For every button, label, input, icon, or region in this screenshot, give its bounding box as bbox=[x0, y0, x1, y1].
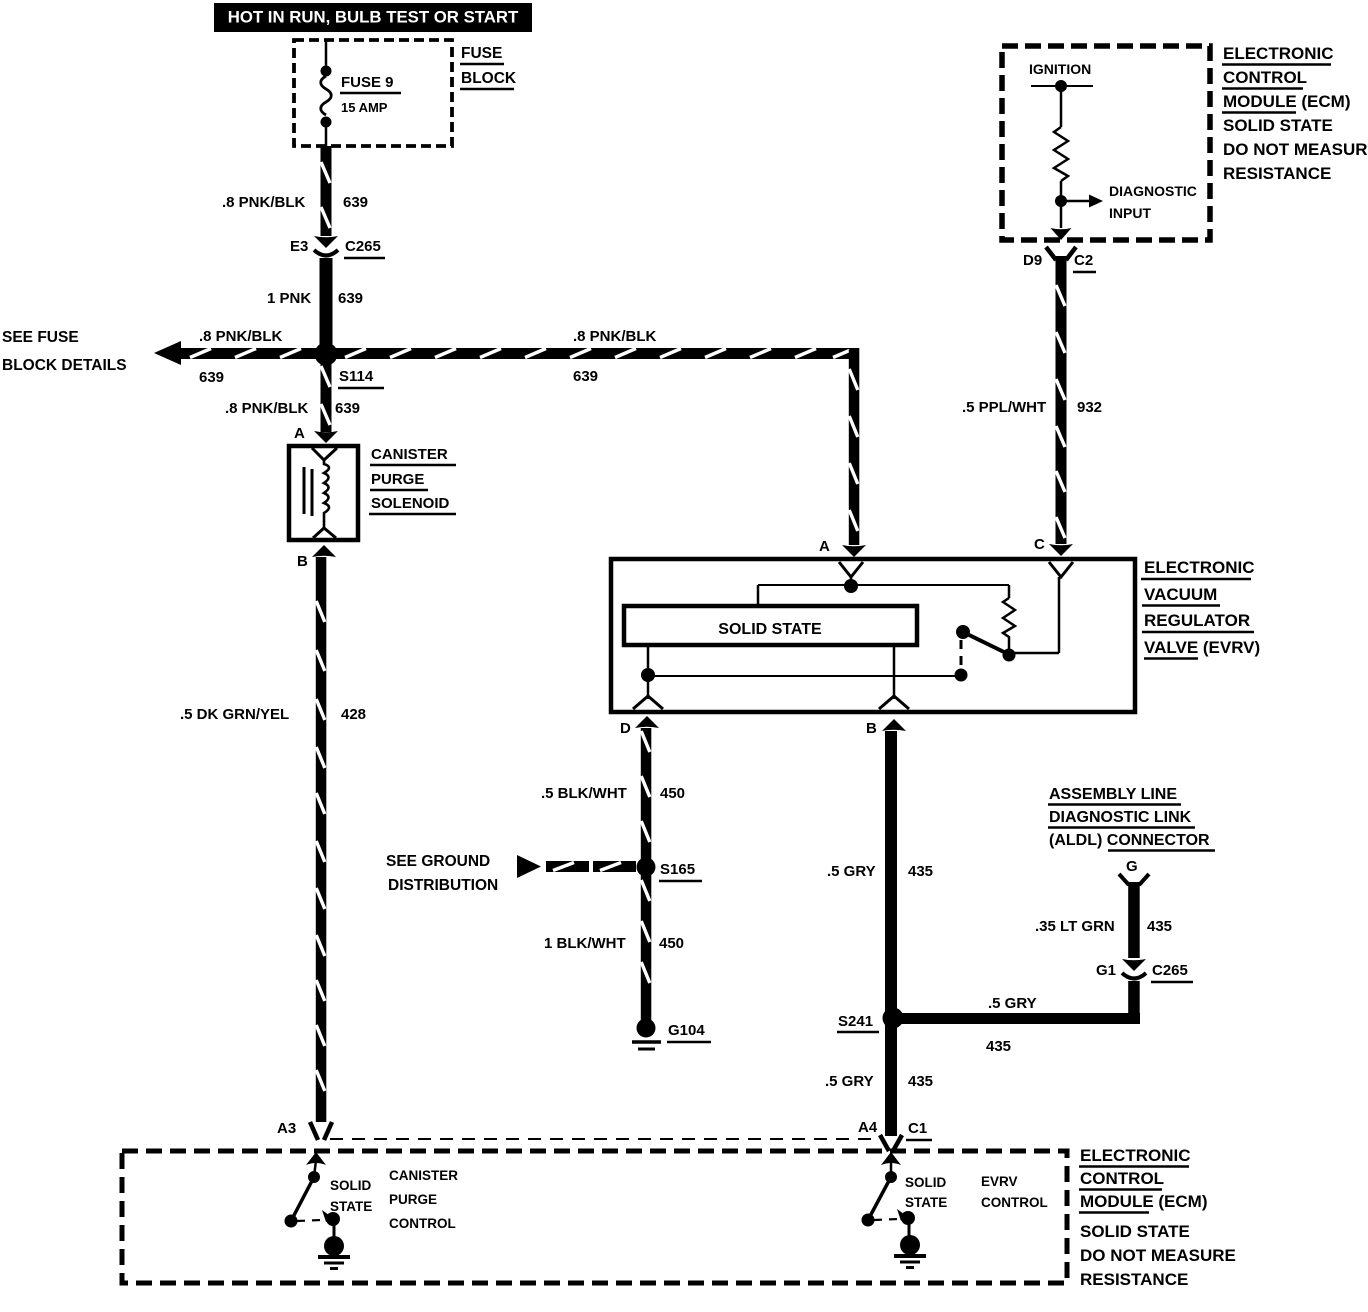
svg-text:SEE FUSE: SEE FUSE bbox=[2, 329, 79, 346]
wire .5 DK GRN/YEL 428 solenoid to ECM A3 bbox=[316, 557, 327, 1122]
label .5 GRY 435 below S241 bbox=[825, 1073, 933, 1090]
node + diagnostic input arrow bbox=[1055, 181, 1103, 228]
label EVRV CONTROL bbox=[981, 1174, 1048, 1210]
svg-text:435: 435 bbox=[908, 863, 933, 880]
canister purge solenoid bbox=[289, 446, 358, 540]
svg-text:G1: G1 bbox=[1096, 962, 1116, 979]
dashed striped link to S165 bbox=[546, 861, 636, 872]
svg-text:DIAGNOSTIC LINK: DIAGNOSTIC LINK bbox=[1049, 809, 1192, 826]
svg-text:639: 639 bbox=[338, 290, 363, 307]
EVRV internal wire switch to C bbox=[1009, 577, 1059, 653]
svg-text:SOLID: SOLID bbox=[330, 1178, 372, 1193]
label ASSEMBLY LINE DIAGNOSTIC LINK (ALDL) CONNECTOR bbox=[1048, 786, 1215, 851]
wire .5 GRY to corner bbox=[1128, 981, 1140, 1019]
svg-text:450: 450 bbox=[659, 935, 684, 952]
ground (EVRV driver) bbox=[894, 1235, 926, 1268]
svg-text:ASSEMBLY LINE: ASSEMBLY LINE bbox=[1049, 786, 1177, 803]
wire .5 GRY 435 B to S241 to ECM A4 bbox=[885, 731, 897, 1136]
terminal A arrow into EVRV bbox=[819, 538, 866, 557]
svg-text:SOLID: SOLID bbox=[905, 1175, 947, 1190]
svg-text:A3: A3 bbox=[277, 1120, 296, 1137]
terminal C arrow into EVRV bbox=[1034, 536, 1073, 556]
resistor (ignition pull-up) bbox=[1054, 127, 1068, 181]
EVRV internal: node below A bbox=[844, 577, 858, 593]
svg-text:A4: A4 bbox=[858, 1119, 878, 1136]
svg-text:VALVE (EVRV): VALVE (EVRV) bbox=[1144, 638, 1260, 657]
EVRV terminal B notch bbox=[879, 696, 909, 709]
fuse F9 symbol bbox=[321, 40, 332, 146]
ECM (bottom) dashed box bbox=[122, 1151, 1067, 1283]
connector C265 terminal E3 (male arrow into female cup) bbox=[314, 236, 338, 256]
svg-text:G: G bbox=[1126, 858, 1138, 875]
EVRV terminal D notch bbox=[633, 696, 663, 709]
svg-text:932: 932 bbox=[1077, 399, 1102, 416]
svg-text:639: 639 bbox=[199, 369, 224, 386]
label ECM top right bbox=[1222, 44, 1368, 183]
svg-text:FUSE: FUSE bbox=[461, 45, 502, 62]
label SOLID STATE (left) bbox=[330, 1178, 372, 1214]
EVRV internal wire A-node to solid state and resistor bbox=[758, 585, 1009, 606]
label .8 PNK/BLK 639 right segment bbox=[573, 328, 657, 385]
svg-text:S241: S241 bbox=[838, 1013, 873, 1030]
svg-text:BLOCK: BLOCK bbox=[461, 70, 517, 87]
connector terminal A3 (into ECM) bbox=[310, 1122, 332, 1140]
svg-text:639: 639 bbox=[343, 194, 368, 211]
svg-text:.35 LT GRN: .35 LT GRN bbox=[1035, 918, 1115, 935]
label CANISTER PURGE SOLENOID bbox=[369, 446, 456, 514]
svg-text:CANISTER: CANISTER bbox=[371, 446, 448, 463]
svg-text:C265: C265 bbox=[345, 238, 381, 255]
svg-text:.5 PPL/WHT: .5 PPL/WHT bbox=[962, 399, 1046, 416]
label FUSE BLOCK bbox=[460, 45, 517, 89]
svg-text:D: D bbox=[620, 720, 631, 737]
svg-text:A: A bbox=[294, 425, 305, 442]
svg-text:ELECTRONIC: ELECTRONIC bbox=[1223, 44, 1334, 63]
svg-text:DO NOT MEASURE: DO NOT MEASURE bbox=[1080, 1246, 1236, 1265]
terminal D arrow up into EVRV bbox=[620, 716, 659, 737]
arrow from ground distribution bbox=[517, 855, 541, 878]
arrow to fuse block details (left) bbox=[154, 341, 181, 365]
svg-text:EVRV: EVRV bbox=[981, 1174, 1018, 1189]
label SOLID STATE (right) bbox=[905, 1175, 947, 1210]
label .35 LT GRN 435 bbox=[1035, 918, 1172, 935]
svg-text:ELECTRONIC: ELECTRONIC bbox=[1080, 1146, 1191, 1165]
dashed connector line C1 between A3 and A4 bbox=[330, 1138, 878, 1140]
svg-text:.5 GRY: .5 GRY bbox=[827, 863, 876, 880]
label 1 BLK/WHT 450 bbox=[544, 935, 684, 952]
label E3 / C265 bbox=[290, 238, 385, 258]
ground G104 bbox=[632, 1019, 711, 1050]
label .5 PPL/WHT 932 bbox=[962, 399, 1102, 416]
terminal B arrow up into solenoid bbox=[297, 545, 336, 570]
svg-text:C: C bbox=[1034, 536, 1045, 553]
svg-text:1 BLK/WHT: 1 BLK/WHT bbox=[544, 935, 626, 952]
svg-text:STATE: STATE bbox=[905, 1195, 947, 1210]
switch dashed actuator link bbox=[960, 640, 963, 670]
svg-text:CONTROL: CONTROL bbox=[389, 1216, 456, 1231]
svg-text:BLOCK DETAILS: BLOCK DETAILS bbox=[2, 357, 127, 374]
label .5 GRY 435 horizontal bbox=[986, 995, 1037, 1055]
svg-text:C265: C265 bbox=[1152, 962, 1188, 979]
svg-text:PURGE: PURGE bbox=[371, 471, 424, 488]
wire .35 LT GRN 435 G to C265 bbox=[1128, 882, 1140, 958]
svg-text:CONTROL: CONTROL bbox=[981, 1195, 1048, 1210]
wire .8 PNK/BLK 639 down to EVRV A bbox=[849, 348, 860, 545]
splice S165 bbox=[637, 858, 703, 882]
wire .5 PPL/WHT 932 D9 to EVRV C bbox=[1056, 256, 1067, 544]
terminal A arrow into solenoid bbox=[294, 425, 338, 443]
wire .5 GRY 435 S241 to ALDL bbox=[891, 1013, 1140, 1024]
svg-text:.5 GRY: .5 GRY bbox=[825, 1073, 874, 1090]
svg-text:SOLID STATE: SOLID STATE bbox=[1223, 116, 1333, 135]
label DIAGNOSTIC INPUT bbox=[1109, 183, 1197, 221]
svg-text:HOT IN RUN, BULB TEST OR START: HOT IN RUN, BULB TEST OR START bbox=[228, 8, 519, 27]
svg-text:CONTROL: CONTROL bbox=[1080, 1169, 1164, 1188]
svg-text:639: 639 bbox=[335, 400, 360, 417]
label .8 PNK/BLK 639 bbox=[222, 194, 368, 211]
wire BLK/WHT 450 D to S165 to G104 bbox=[641, 728, 652, 1022]
arrow down to D9 bbox=[1051, 228, 1072, 240]
svg-text:MODULE (ECM): MODULE (ECM) bbox=[1080, 1192, 1207, 1211]
svg-text:PURGE: PURGE bbox=[389, 1192, 437, 1207]
svg-text:CANISTER: CANISTER bbox=[389, 1168, 458, 1183]
svg-text:DISTRIBUTION: DISTRIBUTION bbox=[388, 877, 498, 894]
svg-text:B: B bbox=[866, 720, 877, 737]
svg-text:435: 435 bbox=[986, 1038, 1011, 1055]
svg-text:E3: E3 bbox=[290, 238, 308, 255]
label .8 PNK/BLK 639 left segment bbox=[199, 328, 283, 386]
svg-text:VACUUM: VACUUM bbox=[1144, 585, 1217, 604]
wire 1 PNK 639 to S114 bbox=[320, 258, 333, 349]
svg-text:.8 PNK/BLK: .8 PNK/BLK bbox=[199, 328, 283, 345]
wire .8 PNK/BLK 639 horizontal bus bbox=[179, 348, 859, 359]
svg-text:FUSE 9: FUSE 9 bbox=[341, 74, 394, 91]
svg-text:RESISTANCE: RESISTANCE bbox=[1080, 1270, 1188, 1289]
label .5 GRY 435 above S241 bbox=[827, 863, 933, 880]
label .8 PNK/BLK 639 bbox=[225, 400, 360, 417]
svg-text:SOLENOID: SOLENOID bbox=[371, 495, 450, 512]
splice S241 bbox=[837, 1008, 904, 1033]
svg-text:S165: S165 bbox=[660, 861, 695, 878]
node below resistor bbox=[1003, 649, 1016, 662]
label A4 / C1 bbox=[858, 1119, 932, 1140]
svg-text:SEE GROUND: SEE GROUND bbox=[386, 853, 490, 870]
switch pivot node bbox=[956, 625, 970, 639]
svg-text:.5 BLK/WHT: .5 BLK/WHT bbox=[541, 785, 627, 802]
label SEE FUSE BLOCK DETAILS bbox=[2, 329, 127, 374]
svg-text:435: 435 bbox=[1147, 918, 1172, 935]
svg-text:SOLID STATE: SOLID STATE bbox=[1080, 1222, 1190, 1241]
svg-text:.8 PNK/BLK: .8 PNK/BLK bbox=[225, 400, 309, 417]
svg-text:639: 639 bbox=[573, 368, 598, 385]
svg-text:.8 PNK/BLK: .8 PNK/BLK bbox=[222, 194, 306, 211]
EVRV terminal A notch bbox=[839, 562, 863, 577]
svg-text:IGNITION: IGNITION bbox=[1029, 61, 1091, 77]
fuse block dashed box bbox=[294, 40, 452, 146]
svg-text:15 AMP: 15 AMP bbox=[341, 100, 388, 115]
label CANISTER PURGE CONTROL bbox=[389, 1168, 458, 1231]
svg-text:RESISTANCE: RESISTANCE bbox=[1223, 164, 1331, 183]
svg-text:S114: S114 bbox=[339, 368, 374, 385]
ECM driver: canister purge control switch bbox=[285, 1152, 341, 1240]
connector C1 terminal A4 (into ECM) bbox=[880, 1135, 902, 1151]
solid state box bbox=[624, 606, 917, 645]
svg-text:MODULE (ECM): MODULE (ECM) bbox=[1223, 92, 1350, 111]
label ECM bottom right bbox=[1079, 1146, 1236, 1289]
ground (canister purge driver) bbox=[318, 1236, 350, 1269]
svg-text:INPUT: INPUT bbox=[1109, 205, 1151, 221]
svg-text:450: 450 bbox=[660, 785, 685, 802]
svg-text:DIAGNOSTIC: DIAGNOSTIC bbox=[1109, 183, 1197, 199]
label D9 / C2 bbox=[1023, 252, 1096, 272]
EVRV terminal C notch bbox=[1049, 562, 1073, 577]
label EVRV right bbox=[1141, 558, 1260, 659]
splice S114 bbox=[315, 343, 385, 389]
wire .8 PNK/BLK 639 S114 to solenoid bbox=[321, 359, 332, 432]
svg-text:(ALDL) CONNECTOR: (ALDL) CONNECTOR bbox=[1049, 832, 1210, 849]
svg-text:C2: C2 bbox=[1074, 252, 1093, 269]
label G1 / C265 bbox=[1096, 962, 1193, 982]
svg-text:STATE: STATE bbox=[330, 1199, 372, 1214]
connector C2 terminal D9 bbox=[1046, 247, 1076, 260]
label .5 BLK/WHT 450 bbox=[541, 785, 685, 802]
svg-text:.5 GRY: .5 GRY bbox=[988, 995, 1037, 1012]
EVRV internal lower wire bbox=[641, 645, 961, 699]
label SEE GROUND DISTRIBUTION bbox=[386, 853, 498, 894]
svg-text:.5 DK GRN/YEL: .5 DK GRN/YEL bbox=[180, 706, 289, 723]
connector C265 terminal G1 bbox=[1122, 959, 1146, 979]
label .5 DK GRN/YEL 428 bbox=[180, 706, 366, 723]
wire .8 PNK/BLK 639 fuse to C265 bbox=[321, 146, 332, 236]
svg-text:SOLID STATE: SOLID STATE bbox=[718, 621, 822, 638]
svg-text:.8 PNK/BLK: .8 PNK/BLK bbox=[573, 328, 657, 345]
svg-text:C1: C1 bbox=[908, 1120, 927, 1137]
svg-text:DO NOT MEASURE: DO NOT MEASURE bbox=[1223, 140, 1368, 159]
svg-text:B: B bbox=[297, 553, 308, 570]
terminal B arrow up into EVRV bbox=[866, 719, 906, 737]
svg-text:A: A bbox=[819, 538, 830, 555]
EVRV box bbox=[611, 559, 1135, 712]
switch blade bbox=[963, 632, 1008, 654]
svg-text:428: 428 bbox=[341, 706, 366, 723]
svg-text:CONTROL: CONTROL bbox=[1223, 68, 1307, 87]
ECM driver: EVRV control switch bbox=[862, 1152, 916, 1239]
node on lower line bbox=[955, 669, 968, 682]
EVRV internal resistor bbox=[1003, 598, 1015, 649]
svg-text:435: 435 bbox=[908, 1073, 933, 1090]
label FUSE 9 / 15 AMP bbox=[340, 74, 401, 115]
svg-text:G104: G104 bbox=[668, 1022, 705, 1039]
svg-text:ELECTRONIC: ELECTRONIC bbox=[1144, 558, 1255, 577]
ignition feed line + node bbox=[1031, 80, 1093, 127]
ECM (top) dashed box bbox=[1002, 46, 1210, 240]
svg-text:REGULATOR: REGULATOR bbox=[1144, 611, 1250, 630]
svg-text:1 PNK: 1 PNK bbox=[267, 290, 311, 307]
header bar HOT IN RUN bbox=[214, 3, 532, 32]
svg-text:D9: D9 bbox=[1023, 252, 1042, 269]
label 1 PNK 639 bbox=[267, 290, 363, 307]
ALDL terminal G cup bbox=[1119, 874, 1149, 884]
